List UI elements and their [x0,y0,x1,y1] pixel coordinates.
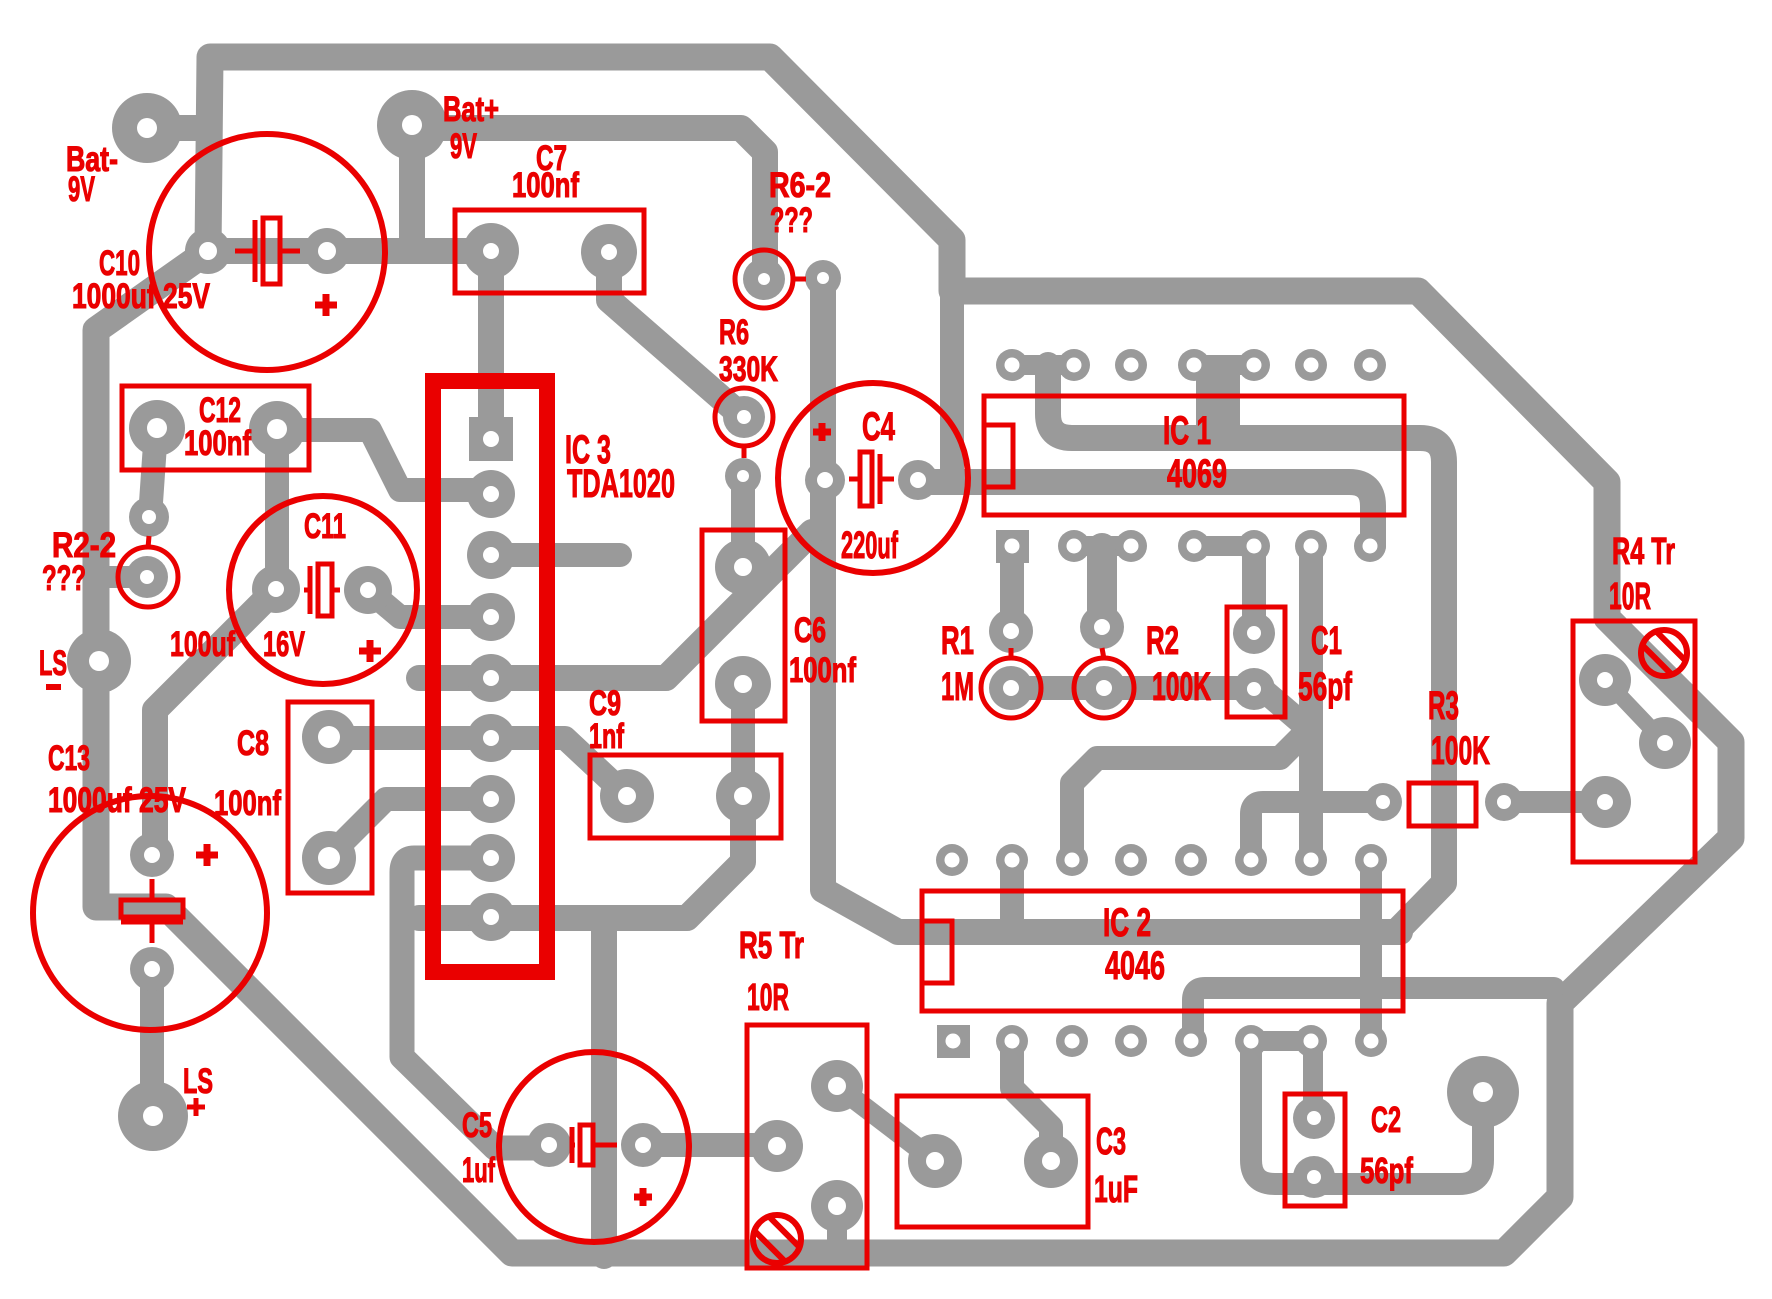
resistor R2 pad top [1080,605,1124,649]
label LS- sign [46,684,61,690]
resistor R3 outline [1409,783,1476,826]
capacitor C12 outline [122,386,309,470]
svg-text:16V: 16V [263,625,305,664]
node Bat- pad [112,93,182,163]
svg-text:9V: 9V [450,127,477,166]
svg-text:???: ??? [42,559,86,598]
op-amp U~ IC3 pin5 pad [467,654,515,702]
capacitor C8 pad top [302,710,356,764]
capacitor C8 pad bottom [302,831,356,885]
capacitor C3 outline [897,1096,1088,1227]
wire C7 left pad down to IC3 pin1 [478,251,504,439]
wire IC1 pin1 to R1 top pad [1000,546,1024,631]
svg-text:10R: 10R [747,977,789,1019]
trimmer R5 screw [753,1215,801,1263]
capacitor C6 pad top [715,539,771,595]
wire IC3 pin3 stub [491,543,620,567]
wire Bat- pad to edge [147,115,209,141]
wire C11 left pad to C13 top pad [155,589,276,855]
capacitor C2 pad top [1293,1097,1335,1139]
svg-text:100nf: 100nf [214,784,281,823]
svg-text:220uf: 220uf [841,525,898,567]
svg-text:R3: R3 [1428,684,1459,728]
wire R3 right pad to R4 pad [1504,791,1605,813]
svg-text:R5 Tr: R5 Tr [739,925,804,967]
op-amp U~ IC2 pin7 pad [1295,1025,1327,1057]
op-amp U~ IC3 pin6 pad [467,714,515,762]
op-amp U~ IC2 pin8 pad [1355,1025,1387,1057]
op-amp U~ IC1 pin7 pad [1354,530,1386,562]
svg-text:Bat+: Bat+ [443,90,499,129]
capacitor C13 plus [196,844,218,866]
op-amp U~ IC2 pin2 pad [996,1025,1028,1057]
wire IC1 top pads 1-2 bar [1012,355,1074,375]
trimmer R4 pad top [1579,654,1631,706]
svg-text:1uf: 1uf [462,1151,495,1190]
op-amp U~ IC2 pin1 square pad [937,1025,970,1058]
resistor R1 pad bottom [989,666,1033,710]
capacitor C4 outline circle [778,383,968,573]
capacitor C4 pad right [898,460,938,500]
trimmer R4 screw [1641,630,1687,676]
resistor R2-2 pad bottom [126,556,168,598]
op-amp U~ IC2 notch [922,921,952,983]
wire C1 bottom pad diagonal [1254,689,1311,731]
capacitor C9 pad right [716,769,770,823]
capacitor C13 outline circle [33,796,267,1030]
wire C12 right pad down to C11 left pad [265,429,289,589]
label LS+ sign [187,1098,205,1116]
op-amp U~ IC2 pin14 pad [1056,844,1088,876]
svg-text:100uf: 100uf [170,625,235,664]
svg-text:1nf: 1nf [589,717,624,756]
resistor R2-2 lead [148,536,149,548]
wire IC3 pin7 to C8 bottom pad [330,799,491,855]
op-amp U~ IC2 pin16 pad [936,844,968,876]
op-amp U~ IC3 outline [433,381,547,972]
trimmer R5 pad middle [751,1120,803,1172]
svg-text:R6-2: R6-2 [769,166,831,205]
capacitor C5 pad left [527,1123,571,1167]
capacitor C1 outline [1227,607,1285,717]
capacitor C5 symbol [572,1125,617,1165]
resistor R2 lead [1102,648,1104,659]
wire IC2 pads 6b-7b bar [1251,1031,1311,1051]
svg-text:IC 1: IC 1 [1163,409,1211,453]
svg-text:1000uf 25V: 1000uf 25V [72,277,210,316]
wire C9 right pad to IC3 pin9 line [419,796,743,918]
wire C9 left pad to IC3 pin6 row [491,738,627,796]
wire IC1 pad6 down to IC2 pad7 [1299,546,1323,857]
trimmer R4 outline [1573,621,1695,862]
capacitor C12 pad right [249,401,305,457]
op-amp U~ IC3 pin9 pad [467,893,515,941]
svg-text:1M: 1M [941,665,974,709]
resistor R2-2 pad top [129,497,169,537]
wire C12 left pad down to R2-2 upper pad [150,430,156,517]
wire long vertical R6-2/C4 to IC2 internal [823,278,1400,932]
resistor R1 pad top [989,609,1033,653]
resistor R6 pad top [723,396,765,438]
op-amp U~ IC2 pin9 pad [1355,844,1387,876]
op-amp U~ IC2 pin5 pad [1175,1025,1207,1057]
op-amp U~ IC1 pin3 pad [1115,530,1147,562]
wire IC2 pad7b to C2 top pad [1303,1043,1323,1118]
capacitor C7 outline [455,210,644,293]
wire R3 left pad to IC2 pad6 [1251,802,1383,857]
capacitor C4 pad left [805,460,845,500]
wire R5 top pad to C3 left pad [837,1086,935,1161]
op-amp U~ IC2 pin15 pad [996,844,1028,876]
capacitor C8 outline [288,702,372,893]
wire branch down to bottom edge [591,918,617,1256]
svg-text:4069: 4069 [1167,452,1227,496]
capacitor C13 pad top [130,833,174,877]
svg-text:C8: C8 [237,724,269,763]
capacitor C10 pad left [185,228,231,274]
svg-text:C2: C2 [1371,1099,1401,1140]
capacitor C3 pad right [1024,1134,1078,1188]
resistor R1 lead [1009,648,1014,659]
resistor R6-2 lead [792,277,806,282]
resistor R6-2 pad right [805,260,841,296]
op-amp U~ IC2 pin13 pad [1115,844,1147,876]
svg-text:100K: 100K [1152,665,1211,709]
wire IC3 pin6 to C8 top pad [329,726,491,750]
capacitor C10 symbol [235,218,300,284]
svg-text:100nf: 100nf [789,651,856,690]
svg-text:R6: R6 [719,313,749,352]
op-amp U~ IC3 pin8 pad [467,834,515,882]
svg-text:9V: 9V [68,170,95,209]
wire IC2 pad6b via C2 bottom to mount pad [1251,1041,1483,1184]
resistor R6 lead [742,445,747,458]
capacitor C3 pad left [908,1134,962,1188]
op-amp U~ IC1 pin5 pad [1238,530,1270,562]
op-amp U~ IC3 pin4 pad [467,593,515,641]
capacitor C7 pad right [581,224,637,280]
svg-text:C6: C6 [794,611,826,650]
svg-text:330K: 330K [719,350,778,389]
resistor R3 pad left [1364,783,1402,821]
capacitor C6 pad bottom [715,656,771,712]
capacitor C10 outline circle [149,134,385,370]
wire IC1 bottom pads 4-5 bar [1194,536,1254,556]
resistor R6 pad bottom [725,458,761,494]
svg-text:C4: C4 [862,405,895,449]
op-amp U~ IC1 pin13 pad [1058,349,1090,381]
wire C11 right pad to IC3 pin4 [368,590,491,617]
op-amp U~ IC1 pin11 pad [1178,349,1210,381]
svg-text:100nf: 100nf [512,166,579,205]
node LS- pad [67,629,131,693]
wire IC2 pad3 zigzag [1072,730,1308,859]
capacitor C11 plus [359,640,381,662]
wire IC1 top pads 4-5 bar [1194,355,1254,375]
capacitor C11 outline circle [229,496,417,684]
svg-text:C3: C3 [1096,1121,1126,1163]
wire R6 lower pad to C6 top pad [731,476,755,567]
trimmer R5 pad top [811,1060,863,1112]
wire IC2 pad2 drop to internal bus [1000,860,1024,933]
wire IC1 pads2-3 drop to R2 top pad [1087,548,1117,627]
op-amp U~ IC2 pin10 pad [1295,844,1327,876]
wire C10 pads to C7 left pad [208,238,491,264]
resistor R2-2 outline circle [118,547,178,607]
wire IC3 pin8 to C5 left pad [402,858,549,1148]
wire C4 right pad to IC1 pin7 bottom [918,482,1373,546]
op-amp U~ IC1 pin8 pad [1354,349,1386,381]
wire IC1 internal bus and long vertical to IC2 [1048,365,1444,928]
capacitor C1 pad bottom [1233,668,1275,710]
op-amp U~ IC1 pin12 pad [1115,349,1147,381]
capacitor C10 plus [315,294,337,316]
op-amp U~ IC1 pin1 square pad [996,530,1029,563]
op-amp U~ IC2 outline [922,891,1403,1011]
svg-text:C5: C5 [462,1106,492,1145]
svg-text:R1: R1 [941,619,974,663]
capacitor C5 outline circle [499,1052,689,1242]
capacitor C13 symbol [121,879,183,943]
wire edge corner down to C4 net [940,240,964,482]
op-amp U~ IC1 pin10 pad [1238,349,1270,381]
wire C6 bottom pad to C9 right pad [731,684,755,796]
svg-text:C13: C13 [48,739,90,778]
node Bat+ pad [377,90,447,160]
capacitor C4 plus [813,423,831,441]
node LS+ pad [118,1081,188,1151]
op-amp U~ IC1 pin6 pad [1295,530,1327,562]
wire IC1 pads4-5 drop to bus [1196,367,1240,430]
wire R1 R2 C1 bottom net [1011,676,1254,700]
capacitor C6 outline [702,530,785,721]
svg-text:100K: 100K [1431,729,1490,773]
wire C7 right pad to R6 pad [609,252,743,417]
capacitor C13 pad bottom [130,947,174,991]
wire IC1 pad5 to C1 top pad [1242,546,1266,633]
trimmer R5 pad bottom [811,1180,863,1232]
wire C13 bottom pad to LS+ pad [140,969,164,1116]
capacitor C10 pad right [304,228,350,274]
svg-text:LS: LS [39,644,67,683]
resistor R6-2 pad left [743,258,785,300]
wire C5 right pad to R5 middle pad [643,1133,777,1157]
capacitor C9 outline [590,755,781,838]
wire R2-2 pad to left edge trace [109,566,147,588]
svg-text:IC 2: IC 2 [1103,901,1151,945]
capacitor C1 pad top [1233,612,1275,654]
wire Bat+ right to R6-2 pad [437,128,765,278]
wire R4 wiper diagonal [1605,680,1665,743]
capacitor C11 pad right [344,566,392,614]
resistor R2 outline circle [1074,658,1134,718]
svg-text:1uF: 1uF [1094,1169,1138,1211]
resistor R6 outline circle [715,388,773,446]
capacitor C11 pad left [252,565,300,613]
capacitor C2 outline [1285,1094,1345,1206]
svg-text:LS: LS [183,1062,213,1101]
capacitor C12 pad left [129,400,185,456]
trimmer R4 pad middle [1639,717,1691,769]
wire IC1 bottom pads 2-3 bar [1074,536,1131,556]
svg-text:C11: C11 [304,507,346,546]
svg-text:100nf: 100nf [184,424,251,463]
wire IC2 pad8 top to bottom [1360,860,1382,1041]
capacitor C5 pad right [621,1123,665,1167]
resistor R1 outline circle [981,658,1041,718]
op-amp U~ IC1 pin4 pad [1178,530,1210,562]
op-amp U~ IC1 pin9 pad [1295,349,1327,381]
resistor R3 pad right [1485,783,1523,821]
trimmer R4 pad bottom [1579,776,1631,828]
op-amp U~ IC2 pin11 pad [1235,844,1267,876]
resistor R6-2 outline circle [735,250,793,308]
node mounting pad bottom right [1447,1056,1519,1128]
op-amp U~ IC3 pin7 pad [467,775,515,823]
op-amp U~ IC3 pin3 pad [467,531,515,579]
op-amp U~ IC1 outline [984,396,1404,515]
op-amp U~ IC1 pin14 pad [996,349,1028,381]
capacitor C9 pad left [600,769,654,823]
op-amp U~ IC2 pin4 pad [1115,1025,1147,1057]
op-amp U~ IC3 pin2 pad [467,470,515,518]
capacitor C7 pad left [463,223,519,279]
op-amp U~ IC1 notch [984,425,1013,487]
svg-text:4046: 4046 [1105,944,1165,988]
capacitor C11 symbol [304,564,340,616]
capacitor C4 symbol [849,452,894,506]
wire Bat+ down to C10/C7 net [399,125,425,251]
trimmer R5 outline [747,1025,867,1268]
wire R5 bottom pad to bottom edge [827,1206,847,1250]
op-amp U~ IC2 pin6 pad [1235,1025,1267,1057]
wire IC2 pad5b to right edge [1193,988,1554,1041]
svg-text:1000uf 25V: 1000uf 25V [48,781,186,820]
svg-text:???: ??? [770,201,813,240]
wire C12 right pad to IC3 pin2 [277,430,491,490]
capacitor C2 pad bottom [1293,1156,1335,1198]
op-amp U~ IC2 pin12 pad [1175,844,1207,876]
op-amp U~ IC1 pin2 pad [1058,530,1090,562]
svg-text:10R: 10R [1609,576,1651,618]
wire IC3 pin5 to vertical net [419,532,812,678]
op-amp U~ IC2 pin3 pad [1056,1025,1088,1057]
wire IC2 pad2b to C3 right pad [1012,1041,1051,1150]
resistor R2 pad bottom [1082,666,1126,710]
capacitor C5 plus [634,1188,652,1206]
svg-text:56pf: 56pf [1298,665,1352,709]
svg-text:R4 Tr: R4 Tr [1612,531,1675,573]
op-amp U~ IC3 pin1 square pad [469,417,513,461]
svg-text:R2: R2 [1146,619,1179,663]
svg-text:C1: C1 [1311,619,1342,663]
svg-text:TDA1020: TDA1020 [567,462,675,506]
svg-text:56pf: 56pf [1360,1150,1414,1191]
